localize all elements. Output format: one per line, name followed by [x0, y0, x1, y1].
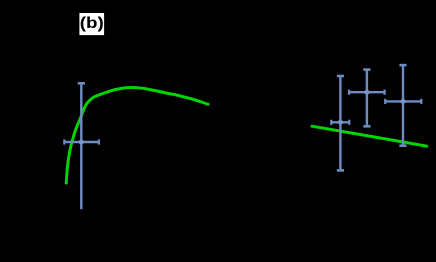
- marker B: [364, 90, 370, 95]
- error bar B (right group, second): [349, 70, 385, 127]
- marker A: [338, 120, 344, 125]
- green fit curve right segment: [312, 126, 427, 146]
- error bar C (right group, third): [385, 65, 421, 146]
- svg-text:(b): (b): [80, 15, 104, 32]
- marker L1: [79, 140, 85, 145]
- error bar L1 (left data point): [64, 83, 99, 209]
- error bar A (right group, first): [331, 76, 349, 170]
- label box (b): [79, 13, 104, 35]
- green fit curve left segment: [66, 88, 208, 184]
- marker C: [400, 99, 406, 104]
